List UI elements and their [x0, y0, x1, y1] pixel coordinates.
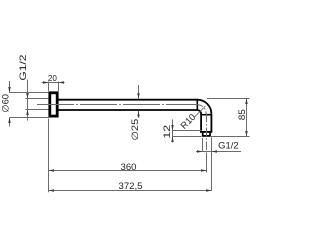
dim G1/2 outlet leader line	[196, 151, 241, 153]
dim 12 line	[172, 120, 174, 143]
centerline horizontal pipe	[37, 104, 197, 106]
svg-text:85: 85	[237, 109, 247, 120]
outlet right edge extension line	[211, 137, 213, 191]
dim 85 extension bottom	[211, 136, 250, 138]
outlet center extension line	[206, 153, 208, 173]
dim G1/2 wall leader line	[27, 80, 29, 121]
dim 20 extension left	[48, 82, 50, 92]
outlet bottom extension line left	[173, 136, 202, 138]
flange top extension line	[10, 92, 49, 94]
step extension line	[173, 130, 203, 132]
svg-text:372,5: 372,5	[119, 181, 143, 191]
dim 20 arrow right	[59, 81, 65, 84]
dim 20 arrow left	[43, 81, 49, 84]
elbow joint line horizontal	[201, 114, 212, 116]
dim G1/2 outlet arrow left	[197, 150, 203, 153]
svg-text:∅60: ∅60	[0, 94, 10, 113]
dim 20 extension right	[58, 82, 60, 92]
dim G1/2 wall arrow bottom	[26, 110, 29, 116]
dim phi25 line top	[138, 85, 140, 99]
dim phi60 line bottom	[9, 118, 11, 127]
thread left extension line	[202, 138, 204, 152]
centerline elbow arc	[197, 105, 206, 114]
dim 85 arrow bottom	[245, 131, 248, 137]
dim G1/2 outlet arrow right	[212, 150, 218, 153]
thread bottom extension line	[26, 109, 49, 111]
dim 360 arrow right	[201, 169, 207, 172]
dim 20 line	[42, 82, 65, 84]
elbow joint line vertical	[196, 99, 198, 111]
horizontal pipe top edge + elbow outer arc + outlet right wall	[58, 100, 211, 132]
dim 372,5 line	[49, 190, 212, 192]
dim phi25 arrow bottom	[137, 111, 140, 117]
svg-text:20: 20	[48, 73, 57, 83]
svg-text:G1/2: G1/2	[18, 55, 28, 81]
dim 85 extension top	[207, 98, 250, 100]
dim G1/2 wall arrow top	[26, 93, 29, 99]
dim 360 line	[49, 170, 207, 172]
dim 360 arrow left	[49, 169, 55, 172]
dim 372,5 arrow left	[49, 189, 55, 192]
dim 372,5 arrow right	[206, 189, 212, 192]
dim 85 arrow top	[245, 99, 248, 105]
flange face extension line	[48, 119, 50, 193]
dim phi60 arrow top	[8, 87, 11, 93]
flange bottom extension line	[10, 117, 49, 119]
dim phi60 line top	[9, 81, 11, 93]
outlet step shoulder	[200, 131, 212, 133]
centerline outlet vertical	[206, 114, 208, 153]
horizontal pipe bottom edge + elbow inner arc + outlet left wall	[58, 110, 201, 131]
dim 85 line	[246, 99, 248, 137]
outlet thread block	[203, 132, 210, 136]
svg-text:∅25: ∅25	[130, 119, 140, 141]
outlet bottom edge	[202, 135, 211, 137]
dim 12 arrow bottom	[171, 137, 174, 143]
dim 12 arrow top	[171, 125, 174, 131]
thread top extension line	[26, 98, 49, 100]
svg-text:12: 12	[162, 125, 172, 139]
svg-text:G1/2: G1/2	[218, 141, 238, 151]
dim phi25 arrow top	[137, 93, 140, 99]
dim phi25 line bottom	[138, 111, 140, 118]
dim R10 leader	[194, 106, 206, 118]
wall flange	[50, 93, 57, 116]
dim phi60 arrow bottom	[8, 118, 11, 124]
